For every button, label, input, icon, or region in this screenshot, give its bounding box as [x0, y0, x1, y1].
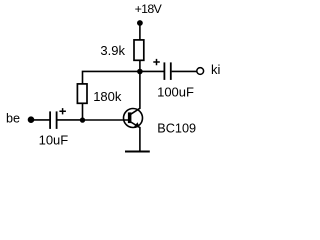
wire feedback from collector node to 180k top — [83, 71, 140, 84]
svg-text:+18V: +18V — [135, 2, 163, 16]
capacitor 10uF plate 1 — [49, 111, 51, 128]
resistor 3.9k body — [134, 40, 144, 60]
svg-text:10uF: 10uF — [39, 133, 69, 148]
wire input terminal to 10uF — [31, 119, 50, 121]
wire 10uF to base node — [58, 119, 83, 121]
wire 3.9k bottom to collector node — [139, 60, 141, 72]
wire 100uF to output terminal — [172, 70, 197, 72]
wire collector node to 100uF — [140, 70, 164, 72]
capacitor 10uF plate 2 — [56, 111, 58, 128]
resistor 180k body — [77, 84, 87, 103]
input terminal dot — [28, 116, 35, 123]
ground bar — [125, 150, 150, 152]
transistor emitter arrow — [134, 122, 140, 127]
svg-text:BC109: BC109 — [157, 121, 196, 135]
svg-text:3.9k: 3.9k — [100, 43, 125, 58]
capacitor 100uF plate 1 — [163, 62, 165, 80]
collector node junction dot — [137, 69, 143, 75]
transistor BC109 circle — [124, 109, 143, 128]
transistor emitter lead — [131, 122, 140, 151]
base node junction dot — [80, 117, 85, 122]
svg-text:100uF: 100uF — [157, 84, 194, 99]
transistor base bar — [128, 112, 131, 123]
supply terminal dot — [137, 20, 143, 26]
transistor collector lead — [131, 72, 140, 115]
capacitor 100uF plate 2 — [170, 62, 172, 80]
svg-text:be: be — [6, 112, 20, 126]
svg-text:ki: ki — [211, 62, 221, 77]
svg-text:180k: 180k — [93, 89, 122, 104]
wire supply to 3.9k top — [139, 23, 141, 40]
10uF polarity plus sign — [59, 108, 66, 114]
100uF polarity plus sign — [153, 59, 160, 65]
output terminal open circle — [197, 68, 204, 75]
wire 180k bottom to base node — [82, 103, 84, 120]
wire base node to transistor base — [83, 119, 129, 121]
